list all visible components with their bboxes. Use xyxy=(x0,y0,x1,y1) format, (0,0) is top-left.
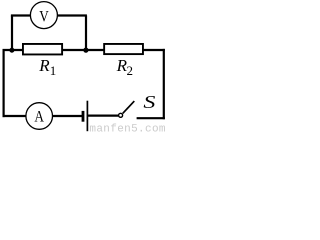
wire middle row left segment xyxy=(3,49,24,51)
wire bottom left xyxy=(3,115,28,117)
wire battery to switch xyxy=(88,114,118,116)
svg-text:manfen5.com: manfen5.com xyxy=(89,123,166,134)
resistor R2 xyxy=(104,44,143,54)
switch S xyxy=(119,101,135,117)
ammeter A xyxy=(26,103,53,130)
junction node right xyxy=(83,48,88,53)
wire right edge vertical xyxy=(163,49,165,119)
wire voltmeter branch left vertical xyxy=(11,16,13,51)
wire ammeter to battery xyxy=(53,115,83,117)
label R1 xyxy=(38,56,56,78)
wire switch right contact xyxy=(137,117,165,119)
wire middle row between R1 and R2 xyxy=(63,49,104,51)
svg-text:1: 1 xyxy=(50,63,57,78)
resistor R1 xyxy=(23,44,62,55)
wire left edge vertical xyxy=(2,49,4,117)
voltmeter V xyxy=(30,2,57,29)
svg-text:S: S xyxy=(143,92,155,112)
battery xyxy=(83,101,87,132)
svg-text:2: 2 xyxy=(127,63,134,78)
wire voltmeter branch right vertical xyxy=(85,16,87,51)
svg-text:R: R xyxy=(38,56,50,75)
svg-text:A: A xyxy=(34,109,44,126)
wire voltmeter top horizontal xyxy=(11,14,87,16)
junction node left xyxy=(9,48,14,53)
label R2 xyxy=(116,56,133,78)
svg-text:V: V xyxy=(39,8,49,25)
wire middle row right segment xyxy=(144,49,165,51)
